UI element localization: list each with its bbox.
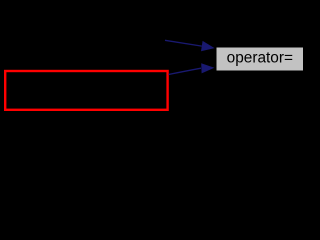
svg-text:operator=: operator= [227,50,293,67]
